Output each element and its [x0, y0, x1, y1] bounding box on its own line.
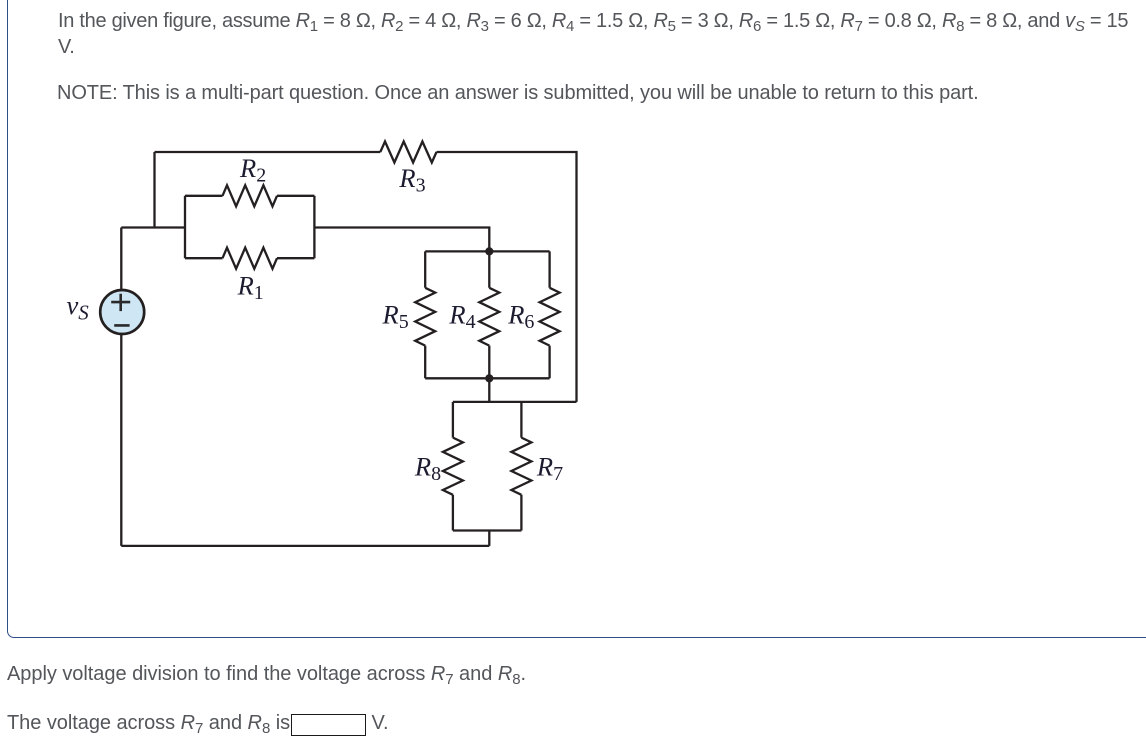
- svg-text:R2: R2: [239, 153, 266, 187]
- svg-text:R7: R7: [536, 452, 563, 486]
- svg-text:R3: R3: [398, 163, 425, 197]
- svg-text:R6: R6: [507, 299, 534, 333]
- svg-text:R1: R1: [237, 271, 264, 305]
- svg-text:R4: R4: [448, 299, 475, 333]
- svg-text:vS: vS: [67, 290, 90, 325]
- svg-text:R5: R5: [382, 299, 409, 333]
- svg-text:R8: R8: [414, 452, 441, 486]
